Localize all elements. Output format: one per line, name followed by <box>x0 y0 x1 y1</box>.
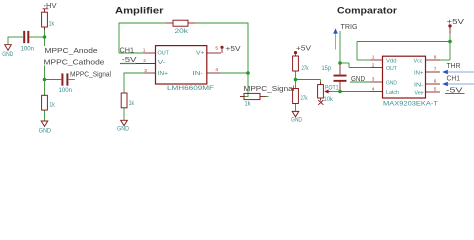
svg-text:Latch: Latch <box>386 90 399 96</box>
svg-text:Comparator: Comparator <box>337 5 398 15</box>
svg-text:GND: GND <box>291 117 303 123</box>
svg-text:Vdd: Vdd <box>386 59 397 65</box>
svg-text:GND: GND <box>117 126 130 132</box>
svg-text:+5V: +5V <box>226 46 241 53</box>
svg-text:CH1: CH1 <box>120 48 135 55</box>
svg-text:IN+: IN+ <box>158 71 169 77</box>
svg-text:2: 2 <box>372 62 375 68</box>
svg-text:GND: GND <box>2 52 14 58</box>
svg-text:1: 1 <box>143 48 146 54</box>
svg-text:8: 8 <box>434 55 437 61</box>
svg-text:GND: GND <box>386 81 397 87</box>
svg-text:10k: 10k <box>324 97 334 103</box>
svg-text:IN-: IN- <box>414 83 424 89</box>
svg-text:GND: GND <box>351 76 365 83</box>
svg-text:Vcc: Vcc <box>414 59 423 65</box>
svg-text:POT1: POT1 <box>325 86 339 92</box>
svg-text:4: 4 <box>372 86 375 92</box>
svg-text:V-: V- <box>158 60 166 66</box>
svg-text:2: 2 <box>143 58 146 64</box>
svg-text:1k: 1k <box>49 22 55 28</box>
svg-text:OUT: OUT <box>386 66 398 72</box>
svg-text:Vee: Vee <box>415 91 424 97</box>
svg-text:TRIG: TRIG <box>341 24 358 31</box>
svg-text:CH1: CH1 <box>447 75 461 82</box>
svg-text:6: 6 <box>434 79 437 85</box>
svg-text:15p: 15p <box>322 66 332 72</box>
svg-text:MPPC_Signal: MPPC_Signal <box>244 86 296 93</box>
svg-text:7: 7 <box>434 67 437 73</box>
svg-text:100n: 100n <box>21 46 35 52</box>
svg-text:THR: THR <box>447 63 461 70</box>
svg-text:IN-: IN- <box>193 71 204 77</box>
svg-text:Amplifier: Amplifier <box>115 5 164 15</box>
svg-text:1: 1 <box>372 55 375 61</box>
svg-text:MPPC_Cathode: MPPC_Cathode <box>44 59 105 66</box>
svg-text:V+: V+ <box>196 51 205 57</box>
svg-text:1k: 1k <box>245 101 252 107</box>
svg-text:-5V: -5V <box>446 87 463 94</box>
svg-text:-5V: -5V <box>122 57 137 64</box>
svg-text:MAX9203EKA-T: MAX9203EKA-T <box>383 101 438 107</box>
svg-text:1k: 1k <box>129 101 135 107</box>
svg-text:5: 5 <box>215 46 218 52</box>
svg-text:-HV: -HV <box>44 3 57 10</box>
svg-text:3: 3 <box>372 77 375 83</box>
svg-text:LMH6609MF: LMH6609MF <box>167 86 214 92</box>
svg-text:MPPC_Anode: MPPC_Anode <box>45 48 98 55</box>
svg-text:+5V: +5V <box>296 46 311 53</box>
svg-text:27k: 27k <box>302 66 310 72</box>
svg-text:5: 5 <box>434 87 437 93</box>
svg-text:100n: 100n <box>59 88 73 94</box>
svg-text:+5V: +5V <box>447 19 465 26</box>
svg-text:4: 4 <box>215 67 218 73</box>
svg-text:3: 3 <box>144 68 147 74</box>
svg-text:1k: 1k <box>49 102 55 108</box>
svg-text:OUT: OUT <box>158 51 170 57</box>
svg-text:MPPC_Signal: MPPC_Signal <box>70 72 111 79</box>
svg-text:GND: GND <box>39 129 52 135</box>
svg-text:27k: 27k <box>301 96 309 102</box>
svg-text:20k: 20k <box>175 29 190 35</box>
svg-text:IN+: IN+ <box>414 71 424 77</box>
